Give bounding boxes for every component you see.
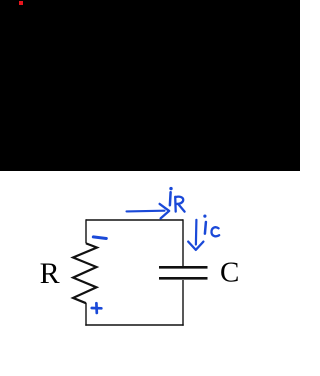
svg-text:C: C bbox=[220, 257, 239, 289]
wire right lower bbox=[182, 280, 184, 326]
minus sign bbox=[93, 237, 106, 239]
arrow i_c (downward) bbox=[195, 220, 198, 245]
plus sign bbox=[92, 307, 102, 310]
arrow i_R (rightward) bbox=[127, 210, 165, 213]
wire right upper bbox=[182, 219, 184, 266]
black video area bbox=[0, 0, 300, 171]
resistor R bbox=[73, 243, 97, 303]
label i_c bbox=[205, 222, 206, 234]
svg-text:R: R bbox=[40, 257, 60, 290]
label i_R bbox=[169, 192, 172, 205]
wire bottom bbox=[85, 324, 183, 326]
capacitor C bbox=[159, 267, 208, 278]
dot of i_c bbox=[203, 215, 206, 218]
wire left lower bbox=[85, 303, 87, 326]
wire left upper bbox=[85, 219, 87, 243]
red record dot bbox=[19, 1, 23, 5]
wire top bbox=[86, 219, 183, 221]
dot of i_R bbox=[169, 187, 172, 190]
